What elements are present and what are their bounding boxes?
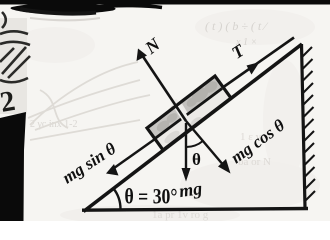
- N arrow: [141, 54, 186, 122]
- block light base fill: [147, 76, 231, 150]
- left margin gray wash: [0, 18, 27, 114]
- incline triangle base: [82, 209, 308, 211]
- block fill upper strip left patch: [150, 104, 183, 140]
- mg cos theta arrow: [186, 121, 225, 167]
- block midline (rope line crossing block): [155, 89, 222, 139]
- svg-text:θ: θ: [192, 150, 201, 169]
- theta arc at block: [186, 141, 203, 147]
- faint mottle lower strip: [162, 115, 203, 146]
- faint pencil scribbles left-middle: [28, 62, 150, 140]
- mg sin theta arrow: [112, 139, 155, 170]
- paper mottling light patches: [15, 9, 315, 180]
- left margin crossed-out scribbles: [0, 12, 30, 82]
- wall hatching: [302, 47, 315, 201]
- incline right wall: [302, 44, 306, 208]
- mg arrow: [185, 123, 187, 170]
- svg-text:θ = 30°: θ = 30°: [125, 184, 178, 209]
- white gap along N line inside block: [174, 101, 189, 125]
- paper mottling lower patches: [60, 160, 320, 225]
- top black strip: [0, 0, 330, 5]
- rope T line: [222, 38, 294, 89]
- faint ghost text top right: [205, 19, 269, 48]
- top-left scribble blob: [11, 3, 116, 14]
- block outline: [147, 76, 231, 150]
- vertex angle arc: [113, 188, 120, 209]
- incline hypotenuse: [84, 44, 303, 212]
- svg-text:mg: mg: [178, 178, 204, 201]
- block fill speckles: [155, 79, 220, 134]
- left black bar (lower part): [0, 112, 26, 221]
- faint ghost text inside triangle: [30, 119, 271, 221]
- block fill upper strip right patch: [180, 78, 222, 113]
- svg-text:( t ) ( b ÷ ( t ⁄: ( t ) ( b ÷ ( t ⁄: [205, 19, 269, 33]
- T arrowhead: [247, 62, 260, 75]
